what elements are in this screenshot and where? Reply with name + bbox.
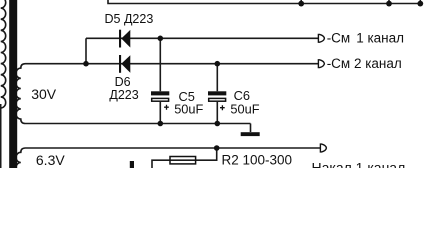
svg-text:Накал 1 канал: Накал 1 канал <box>312 160 406 168</box>
svg-text:D5 Д223: D5 Д223 <box>105 12 154 26</box>
svg-text:50uF: 50uF <box>174 102 203 117</box>
svg-text:C6: C6 <box>234 88 250 103</box>
svg-text:6.3V: 6.3V <box>36 152 65 168</box>
svg-text:D6: D6 <box>115 75 131 89</box>
svg-text:R2 100-300: R2 100-300 <box>222 153 293 168</box>
svg-text:-См 1 канал: -См 1 канал <box>327 31 404 46</box>
svg-text:Д223: Д223 <box>109 88 138 102</box>
svg-text:-См 2 канал: -См 2 канал <box>327 56 402 71</box>
svg-text:50uF: 50uF <box>230 102 259 117</box>
svg-text:30V: 30V <box>31 86 57 102</box>
